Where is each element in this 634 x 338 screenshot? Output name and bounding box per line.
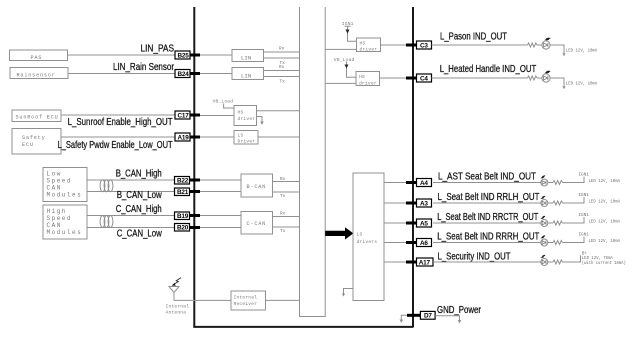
wire pin C17 to HS driver U3 xyxy=(200,115,234,117)
svg-text:HS: HS xyxy=(360,40,366,46)
pin A19 xyxy=(175,133,200,141)
svg-text:B24: B24 xyxy=(178,71,190,78)
wire Safety ECU to pin A19 xyxy=(61,136,175,138)
svg-text:driver: driver xyxy=(360,46,378,52)
svg-text:C4: C4 xyxy=(420,75,428,82)
svg-text:B-CAN: B-CAN xyxy=(247,184,267,190)
svg-text:A4: A4 xyxy=(420,180,428,187)
wire U10 to pin A5 xyxy=(384,222,406,224)
ground hook of U10 xyxy=(342,289,353,297)
wire pin D7 to ground right xyxy=(435,316,461,324)
wire internal bus to U9 input xyxy=(325,82,356,84)
svg-text:driver: driver xyxy=(238,116,256,122)
supply flag VB_Load for U9 xyxy=(334,57,356,77)
block SunRoof ECU xyxy=(12,110,61,122)
wire pin B19 to C-CAN xyxy=(200,215,241,217)
twisted pair symbol C-CAN xyxy=(100,216,113,228)
resistor R4 xyxy=(553,201,563,205)
pin C4 xyxy=(406,74,432,82)
svg-text:Driver: Driver xyxy=(238,139,256,145)
B-CAN controller U5 xyxy=(241,174,273,197)
svg-text:LIN: LIN xyxy=(241,73,251,80)
ECU left bus line xyxy=(193,7,195,327)
wire U8 output to pin C3 xyxy=(381,44,407,46)
svg-text:Rainsensor: Rainsensor xyxy=(17,73,56,79)
svg-text:L_Seat Belt IND RRCTR_OUT: L_Seat Belt IND RRCTR_OUT xyxy=(437,212,538,223)
svg-text:B21: B21 xyxy=(177,189,189,196)
wire D3 to resistor R3 xyxy=(548,182,553,184)
svg-text:L_Security IND_OUT: L_Security IND_OUT xyxy=(438,251,511,262)
pin A6 xyxy=(406,239,432,247)
svg-text:CAN: CAN xyxy=(47,185,62,192)
wire U6 Rx to internal bus xyxy=(273,216,300,218)
block Low Speed CAN Modules xyxy=(43,168,87,202)
svg-text:B25: B25 xyxy=(178,52,190,59)
svg-text:Tx: Tx xyxy=(280,194,286,199)
svg-text:Internal: Internal xyxy=(234,294,258,300)
resistor R2 xyxy=(528,76,538,80)
svg-text:Rx: Rx xyxy=(280,212,286,217)
wire pin B21 to B-CAN xyxy=(200,191,241,193)
wire R7 to B+ riser xyxy=(563,255,581,262)
svg-text:ECU: ECU xyxy=(22,142,34,148)
wire pin A5 to LED D5 xyxy=(433,222,541,224)
resistor R5 xyxy=(553,221,563,225)
pin C3 xyxy=(406,41,432,49)
svg-text:LED 12V, 10mA: LED 12V, 10mA xyxy=(589,179,621,184)
wire U5 Rx to internal bus xyxy=(273,181,300,183)
HS driver U9 xyxy=(356,72,380,87)
svg-text:LED 12V, 10mA: LED 12V, 10mA xyxy=(566,49,598,54)
svg-text:L_AST Seat Belt IND_OUT: L_AST Seat Belt IND_OUT xyxy=(438,172,536,183)
svg-text:LIN_Rain Sensor: LIN_Rain Sensor xyxy=(113,62,174,73)
svg-text:HS: HS xyxy=(359,74,365,80)
svg-text:Tx: Tx xyxy=(280,229,286,234)
svg-text:C_CAN_Low: C_CAN_Low xyxy=(117,228,162,239)
supply flag VB_Load for U3 xyxy=(213,99,235,108)
wire U6 Tx to internal bus xyxy=(273,226,300,228)
wire antenna to Internal Receiver xyxy=(174,299,231,301)
svg-text:C17: C17 xyxy=(178,112,190,119)
svg-text:drivers: drivers xyxy=(357,239,378,245)
wire D5 to resistor R5 xyxy=(548,222,553,224)
svg-text:SunRoof ECU: SunRoof ECU xyxy=(16,115,59,121)
wire U9 output to pin C4 xyxy=(380,77,407,79)
wire U10 to pin A4 xyxy=(384,182,406,184)
svg-text:C3: C3 xyxy=(420,42,428,49)
wire pin A3 to LED D4 xyxy=(433,202,541,204)
LED D6 xyxy=(540,235,547,246)
svg-text:C_CAN_High: C_CAN_High xyxy=(116,204,162,215)
svg-text:LIN: LIN xyxy=(241,55,251,62)
wire pin C3 to resistor R1 xyxy=(432,44,528,46)
svg-text:VB_Load: VB_Load xyxy=(334,57,355,63)
svg-text:B_CAN_High: B_CAN_High xyxy=(116,169,162,180)
svg-text:L_Seat Belt IND RRLH_OUT: L_Seat Belt IND RRLH_OUT xyxy=(438,192,540,203)
svg-text:LED 12V, 10mA: LED 12V, 10mA xyxy=(589,239,621,244)
LED D7L xyxy=(540,255,547,266)
svg-text:A6: A6 xyxy=(420,240,428,247)
svg-text:L_Safety Pwdw Enable_Low_OUT: L_Safety Pwdw Enable_Low_OUT xyxy=(58,140,173,151)
pin B24 xyxy=(175,70,200,78)
wire internal bus to U8 input xyxy=(325,48,356,50)
wire pin A17 to LED D7L xyxy=(433,261,541,263)
wire U4 output to internal bus xyxy=(258,136,300,138)
block Rainsensor xyxy=(10,68,68,79)
wire Rainsensor to pin B24 xyxy=(68,73,175,75)
svg-text:D7: D7 xyxy=(424,313,432,320)
resistor R7 xyxy=(553,260,563,264)
wire pin B22 to B-CAN xyxy=(200,179,241,181)
svg-text:High: High xyxy=(47,208,67,215)
wire D2 to return stub xyxy=(550,78,564,86)
wire D1 to return stub xyxy=(550,45,564,53)
svg-text:Tx: Tx xyxy=(280,79,286,84)
LIN transceiver U2 xyxy=(232,68,264,80)
svg-text:Modules: Modules xyxy=(47,192,83,199)
wire R2 to LED D2 xyxy=(537,77,542,79)
wire R4 to IGN1 riser xyxy=(563,197,585,203)
wire U1 Tx to internal bus xyxy=(264,57,300,59)
pin B22 xyxy=(175,177,201,185)
wire U10 to pin A3 xyxy=(384,202,406,204)
wire D6 to resistor R6 xyxy=(548,242,553,244)
wire D7L to resistor R7 xyxy=(548,261,553,263)
svg-text:Safety: Safety xyxy=(22,135,45,141)
LIN transceiver U1 xyxy=(232,50,264,62)
svg-text:GND_Power: GND_Power xyxy=(437,305,481,316)
HS driver U8 xyxy=(357,38,381,52)
svg-text:L_Sunroof Enable_High_OUT: L_Sunroof Enable_High_OUT xyxy=(68,117,173,128)
svg-text:Rx: Rx xyxy=(279,65,285,70)
C-CAN controller U6 xyxy=(241,212,273,235)
svg-text:Rx: Rx xyxy=(279,47,285,52)
ground hook of U3 xyxy=(257,117,264,126)
svg-text:A5: A5 xyxy=(420,220,428,227)
ground arrow C3 return xyxy=(562,53,565,56)
svg-text:Low: Low xyxy=(47,171,62,178)
label Internal Antenna xyxy=(166,304,190,316)
svg-text:Antenna: Antenna xyxy=(166,310,187,316)
LED D2 xyxy=(542,71,551,83)
block PAS xyxy=(10,50,68,61)
svg-text:LED 12V, 10mA: LED 12V, 10mA xyxy=(589,200,621,205)
svg-text:Rx: Rx xyxy=(280,177,286,182)
svg-text:L_Pason IND_OUT: L_Pason IND_OUT xyxy=(440,32,507,43)
svg-text:B22: B22 xyxy=(177,178,189,185)
wire U2 Tx to internal bus xyxy=(264,76,300,78)
wire U10 to pin A6 xyxy=(384,242,406,244)
svg-text:B_CAN_Low: B_CAN_Low xyxy=(117,190,162,201)
ECU right bus line xyxy=(412,7,414,327)
supply flag IGN1 for U8 xyxy=(342,21,357,41)
svg-text:B20: B20 xyxy=(177,225,189,232)
LS Driver U4 xyxy=(234,131,258,145)
svg-text:driver: driver xyxy=(359,80,377,86)
svg-text:Speed: Speed xyxy=(47,178,73,185)
pin A5 xyxy=(406,219,432,227)
wire pin A19 to LS Driver U4 xyxy=(200,136,234,138)
wire pin B20 to C-CAN xyxy=(200,227,241,229)
resistor R6 xyxy=(553,241,563,245)
wire R3 to IGN1 riser xyxy=(563,177,585,183)
wire U5 Tx to internal bus xyxy=(273,191,300,193)
block Safety ECU xyxy=(12,129,61,155)
svg-text:A17: A17 xyxy=(419,259,431,266)
wire B_CAN_High xyxy=(87,179,175,181)
wire SunRoof ECU to pin C17 xyxy=(61,114,175,116)
svg-text:PAS: PAS xyxy=(31,55,43,61)
pin C17 xyxy=(175,111,200,119)
svg-text:A19: A19 xyxy=(178,134,190,141)
pin B25 xyxy=(175,51,200,59)
LED D4 xyxy=(540,196,547,207)
Internal Receiver U7 xyxy=(231,291,266,310)
wire B_CAN_Low xyxy=(87,191,175,193)
LS drivers U10 xyxy=(353,173,384,301)
pin A4 xyxy=(406,179,432,187)
resistor R3 xyxy=(553,181,563,185)
pin B20 xyxy=(175,224,201,232)
wire R5 to IGN1 riser xyxy=(563,217,585,223)
svg-text:C-CAN: C-CAN xyxy=(247,221,267,227)
pin D7 xyxy=(407,311,435,319)
svg-text:LS: LS xyxy=(357,232,363,238)
svg-text:Speed: Speed xyxy=(47,215,73,222)
LED D3 xyxy=(540,175,547,186)
wire pin A6 to LED D6 xyxy=(433,242,541,244)
svg-text:(with current 10mA): (with current 10mA) xyxy=(582,261,626,266)
resistor R1 xyxy=(528,43,538,47)
bus arrow into LS drivers xyxy=(325,227,353,239)
LED D5 xyxy=(540,216,547,227)
svg-text:LED 12V, 10mA: LED 12V, 10mA xyxy=(566,82,598,87)
pin A3 xyxy=(406,199,432,207)
wire pin B24 to LIN U2 xyxy=(200,73,232,75)
block High Speed CAN Modules xyxy=(43,205,87,239)
wire pin C4 to resistor R2 xyxy=(432,77,528,79)
ground arrow C4 return xyxy=(562,86,565,89)
svg-text:A3: A3 xyxy=(420,200,428,207)
ECU bottom border line xyxy=(193,326,413,328)
svg-text:L_Seat Belt IND RRRH_OUT: L_Seat Belt IND RRRH_OUT xyxy=(437,232,539,243)
svg-text:Receiver: Receiver xyxy=(234,301,258,307)
ground at pin D7 left xyxy=(400,315,411,323)
svg-text:L_Heated Handle IND_OUT: L_Heated Handle IND_OUT xyxy=(440,64,537,75)
pin B21 xyxy=(175,188,201,196)
svg-text:IGN1: IGN1 xyxy=(578,193,589,198)
svg-text:IGN1: IGN1 xyxy=(578,172,589,177)
svg-text:HS: HS xyxy=(238,110,244,116)
pin B19 xyxy=(175,212,201,220)
wire U7 to internal bus xyxy=(266,299,300,301)
wire U2 Rx to internal bus xyxy=(264,70,300,72)
wire C_CAN_High xyxy=(87,215,175,217)
svg-text:Internal: Internal xyxy=(166,304,190,310)
wire D4 to resistor R4 xyxy=(548,202,553,204)
antenna ANT1 internal antenna xyxy=(169,278,181,301)
svg-text:Modules: Modules xyxy=(47,229,83,236)
twisted pair symbol B-CAN xyxy=(100,180,113,192)
LED D1 xyxy=(542,38,551,50)
svg-text:LIN_PAS: LIN_PAS xyxy=(141,44,175,55)
pin A17 xyxy=(406,258,433,266)
internal bus rectangle xyxy=(300,7,326,317)
wire U10 to pin A17 xyxy=(384,261,406,263)
HS driver U3 xyxy=(234,106,257,126)
svg-text:LS: LS xyxy=(238,132,244,138)
svg-text:B19: B19 xyxy=(177,213,189,220)
wire R1 to LED D1 xyxy=(537,44,542,46)
wire pin B25 to LIN U1 xyxy=(200,54,232,56)
svg-text:VB_Load: VB_Load xyxy=(213,99,234,105)
svg-text:IGN1: IGN1 xyxy=(578,213,589,218)
wire PAS to pin B25 xyxy=(68,54,176,56)
svg-text:CAN: CAN xyxy=(47,222,62,229)
wire C_CAN_Low xyxy=(87,227,175,229)
wire pin A4 to LED D3 xyxy=(433,182,541,184)
wire U3 output to internal bus xyxy=(257,110,300,112)
wire U1 Rx to internal bus xyxy=(264,51,300,53)
wire R6 to IGN1 riser xyxy=(563,237,585,243)
svg-text:LED 12V, 10mA: LED 12V, 10mA xyxy=(589,220,621,225)
svg-text:IGN1: IGN1 xyxy=(578,232,589,237)
